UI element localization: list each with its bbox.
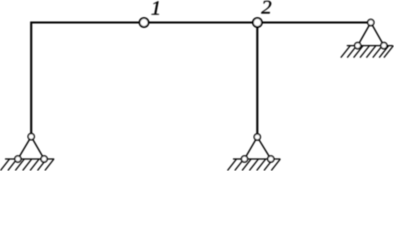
- left column: [30, 22, 32, 137]
- right support top pin circle: [368, 19, 374, 25]
- left support roller circle right: [41, 156, 47, 162]
- right support ground hatching: [341, 46, 394, 58]
- right support roller circle right: [381, 43, 387, 49]
- left support top pin circle: [28, 134, 34, 140]
- middle support roller circle left: [241, 156, 247, 162]
- right support ground line: [347, 45, 393, 47]
- right support triangle legs: [358, 23, 384, 46]
- left support ground hatching: [1, 159, 54, 171]
- middle support triangle legs: [245, 137, 271, 159]
- left support triangle legs: [18, 137, 44, 159]
- left support ground line: [5, 158, 54, 160]
- right support roller circle left: [355, 43, 361, 49]
- middle support top pin circle: [254, 134, 260, 140]
- middle support ground line: [233, 158, 280, 160]
- middle column: [256, 23, 258, 138]
- middle support ground hatching: [228, 159, 281, 171]
- hinge 2 circle: [253, 18, 262, 27]
- label 1 (hinge 1): [151, 1, 159, 14]
- left support roller circle left: [15, 156, 21, 162]
- hinge 1 circle: [140, 18, 149, 27]
- middle support roller circle right: [268, 156, 274, 162]
- beam top chord: [31, 21, 371, 23]
- label 2 (hinge 2): [261, 1, 271, 14]
